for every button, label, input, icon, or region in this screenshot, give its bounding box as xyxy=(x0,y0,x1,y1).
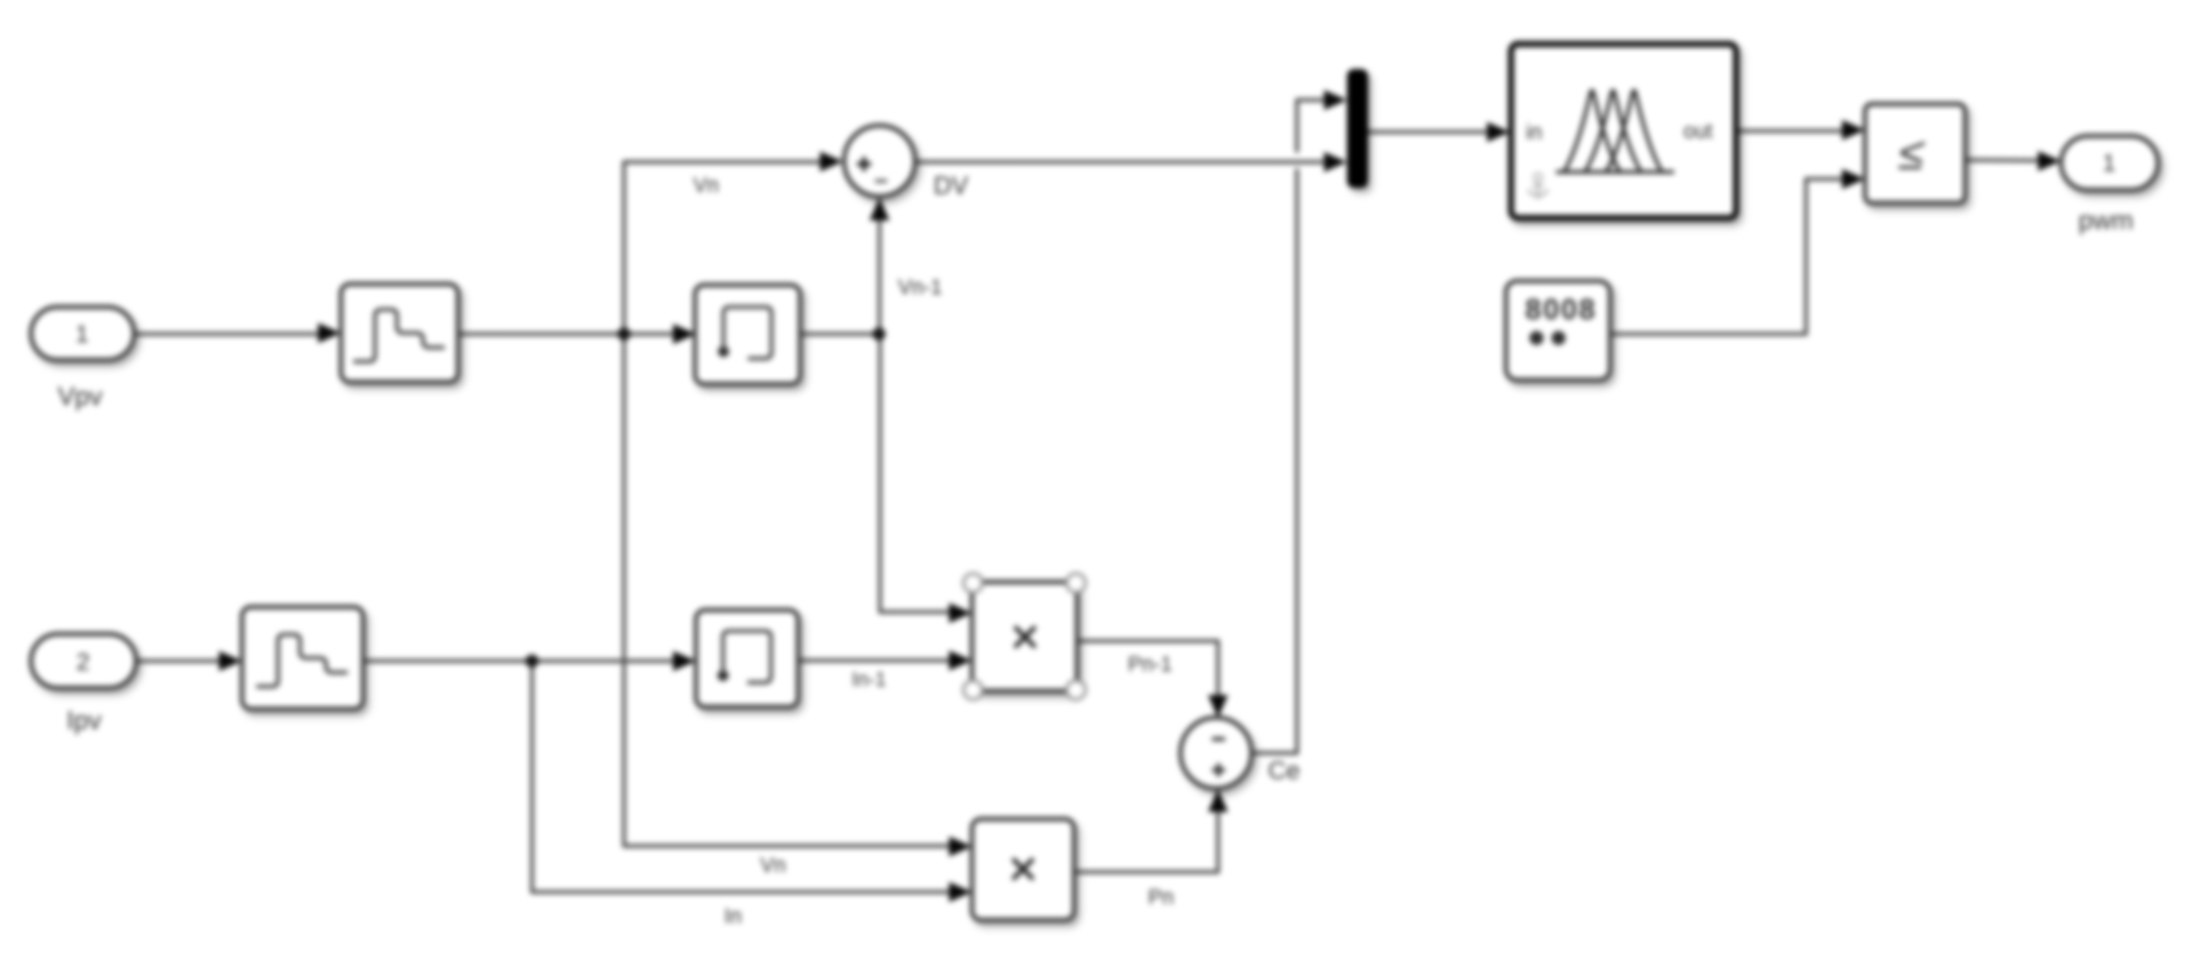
svg-text:pwm: pwm xyxy=(2079,205,2134,235)
svg-text:Vn-1: Vn-1 xyxy=(898,276,942,299)
svg-text:in: in xyxy=(1526,121,1542,144)
svg-text:1: 1 xyxy=(2102,150,2115,177)
svg-text:Ce: Ce xyxy=(1268,757,1300,785)
svg-text:DV: DV xyxy=(934,172,969,200)
svg-text:Pn: Pn xyxy=(1148,886,1174,909)
svg-text:1: 1 xyxy=(75,321,88,348)
svg-text:In-1: In-1 xyxy=(852,669,886,691)
svg-text:8008: 8008 xyxy=(1525,294,1597,326)
svg-text:2: 2 xyxy=(76,649,89,676)
svg-text:Vn: Vn xyxy=(693,174,719,197)
svg-text:out: out xyxy=(1683,120,1712,143)
svg-text:Vn: Vn xyxy=(760,854,786,877)
svg-text:Ipv: Ipv xyxy=(67,705,102,735)
svg-text:In: In xyxy=(724,905,742,928)
svg-text:Vpv: Vpv xyxy=(58,381,103,411)
svg-text:Pn-1: Pn-1 xyxy=(1128,653,1172,676)
